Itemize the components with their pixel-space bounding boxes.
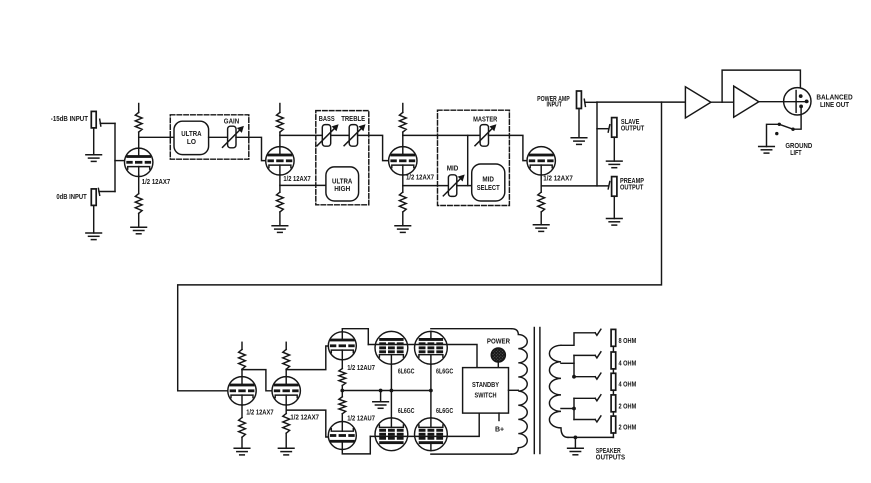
- jack speaker output 4 OHM #2: [611, 352, 616, 369]
- wire input bus: [114, 123, 116, 191]
- jack PREAMP OUTPUT: [608, 177, 617, 197]
- wire bus to SLAVE tip: [597, 128, 609, 130]
- wire 2 ohm tap riser: [573, 398, 575, 419]
- resistor R11 V6 cathode: [285, 405, 287, 413]
- svg-text:SWITCH: SWITCH: [475, 391, 497, 399]
- svg-text:OUTPUT: OUTPUT: [621, 125, 645, 133]
- transformer T1 primary winding: [512, 329, 528, 454]
- tube V11 6L6GC lower left: [375, 418, 408, 451]
- ground at speaker common: [568, 437, 584, 454]
- wire J2 tip to bus: [99, 191, 115, 193]
- wire bus to V1 grid: [115, 160, 125, 162]
- switch contact speaker jack 2: [595, 352, 601, 358]
- resistor R3 V2 plate load: [279, 104, 281, 113]
- svg-text:B+: B+: [495, 425, 504, 433]
- wire MASTER line to MID SELECT node: [467, 135, 469, 185]
- wire POWER AMP INPUT tip: [585, 101, 597, 103]
- wire GAIN to V2 grid: [236, 137, 266, 160]
- wire V6 plate to V7 grid: [286, 346, 328, 370]
- svg-text:MID: MID: [447, 165, 459, 173]
- resistor R10 V6 plate load: [285, 342, 287, 349]
- wire 2 ohm row A: [574, 397, 595, 399]
- wire V7 plate to output tube grids: [342, 329, 368, 345]
- svg-text:TREBLE: TREBLE: [341, 115, 365, 123]
- tube V4 1/2 12AX7: [527, 147, 555, 175]
- svg-text:MASTER: MASTER: [473, 116, 497, 124]
- wire standby to transformer center tap: [509, 389, 519, 391]
- resistor R7 V4 cathode: [540, 175, 542, 192]
- svg-text:INPUT: INPUT: [546, 101, 562, 109]
- svg-text:4 OHM: 4 OHM: [619, 359, 637, 367]
- wire jack chain link: [612, 390, 614, 395]
- svg-text:2 OHM: 2 OHM: [619, 402, 637, 410]
- resistor R5 V3 plate load: [402, 104, 404, 113]
- jack speaker output 2 OHM #5: [611, 416, 616, 433]
- jack speaker output 8 OHM #1: [611, 329, 616, 346]
- wire jack chain link: [612, 369, 614, 373]
- svg-text:1/2 12AX7: 1/2 12AX7: [543, 175, 573, 183]
- resistor R8 V5 plate load: [241, 342, 243, 349]
- ground under R11: [278, 433, 294, 455]
- wire 4 ohm row A: [574, 354, 595, 356]
- ground lift open contact dot: [775, 132, 778, 135]
- connector XLR BALANCED LINE OUT: [784, 88, 811, 115]
- wire secondary top tap 8 ohm: [561, 333, 595, 346]
- junction dot ground tap: [379, 389, 383, 393]
- svg-text:OUTPUTS: OUTPUTS: [596, 454, 626, 462]
- tube V9 6L6GC upper left: [375, 331, 408, 364]
- wire V3 plate node to MASTER: [403, 134, 480, 136]
- ground under J2: [86, 205, 102, 239]
- wire upper plates to transformer: [431, 328, 512, 330]
- pot BASS: [317, 124, 338, 146]
- wire B+ stub: [498, 413, 500, 420]
- tube V6 1/2 12AX7: [272, 377, 300, 405]
- wire lower grid line to standby switch: [370, 413, 479, 436]
- switch contact speaker jack 5: [595, 416, 601, 422]
- resistor R9 V5 cathode: [241, 405, 243, 417]
- wire line-out feed to XLR pin 1: [722, 70, 800, 102]
- wire V4 cathode to PREAMP OUTPUT: [541, 185, 608, 187]
- svg-text:STANDBY: STANDBY: [472, 381, 499, 389]
- wire A2 to XLR: [759, 101, 808, 103]
- wire V2 plate node to BASS: [280, 134, 322, 136]
- ground under R6: [395, 212, 411, 232]
- svg-text:2 OHM: 2 OHM: [619, 424, 637, 432]
- switch contact speaker jack 4: [595, 395, 601, 401]
- input jack J2 0dB INPUT: [91, 188, 99, 205]
- svg-text:6L6GC: 6L6GC: [436, 407, 453, 415]
- wire ULTRA LO to GAIN: [209, 136, 228, 138]
- wire V6 cathode to V8 grid: [286, 410, 328, 437]
- ground under R9: [234, 437, 250, 455]
- svg-text:HIGH: HIGH: [334, 185, 350, 193]
- jack SLAVE OUTPUT: [608, 118, 617, 138]
- pot MID: [443, 175, 464, 197]
- svg-text:LINE OUT: LINE OUT: [820, 101, 850, 109]
- tube V7 1/2 12AU7: [328, 332, 356, 360]
- wire jack chain link: [612, 346, 614, 352]
- ground under PREAMP jack: [607, 196, 623, 225]
- wire 4 ohm tap riser: [573, 355, 575, 376]
- wire XLR shell to ground lift switch: [793, 106, 801, 129]
- jack speaker output 2 OHM #4: [611, 395, 616, 412]
- svg-text:BASS: BASS: [319, 115, 335, 123]
- resistor R13 V8 cathode: [341, 391, 343, 397]
- tube V10 6L6GC upper right: [415, 331, 448, 364]
- op-amp buffer A2: [734, 86, 759, 117]
- wire BASS to TREBLE: [331, 134, 350, 136]
- svg-text:POWER: POWER: [487, 338, 510, 346]
- svg-text:SELECT: SELECT: [477, 184, 501, 192]
- resistor R1 V1 plate load: [138, 104, 140, 113]
- switch GROUND LIFT lever: [779, 124, 793, 129]
- wire cathode bus: [342, 390, 431, 392]
- svg-text:1/2 12AX7: 1/2 12AX7: [406, 174, 434, 182]
- junction dot speaker common: [574, 436, 578, 440]
- input jack J1 -15dB INPUT: [91, 111, 101, 128]
- svg-text:GAIN: GAIN: [224, 118, 239, 126]
- wire 2 ohm row B: [574, 419, 595, 421]
- wire V5 plate to V6 grid: [242, 370, 272, 391]
- svg-text:6L6GC: 6L6GC: [398, 367, 415, 375]
- ground under POWER AMP INPUT jack: [571, 109, 587, 145]
- wire secondary tap 2 ohm: [561, 408, 574, 410]
- junction dot 2 ohm tap: [572, 407, 576, 411]
- wire V8 plate to lower grids: [342, 436, 370, 454]
- svg-text:1/2 12AX7: 1/2 12AX7: [246, 408, 273, 416]
- op-amp buffer A1: [685, 87, 711, 118]
- transformer T1 core: [534, 328, 540, 454]
- ground under R7: [533, 212, 549, 231]
- dashed enclosure MID / MASTER: [438, 110, 510, 205]
- wire MASTER to V4 grid: [489, 135, 528, 160]
- wire TREBLE to V3 grid: [358, 135, 389, 160]
- junction dot 6L6 cathode node: [429, 389, 433, 393]
- wire secondary bottom return: [568, 436, 613, 438]
- svg-text:-15dB INPUT: -15dB INPUT: [51, 115, 89, 123]
- junction dot 6L6 left cathode node: [390, 389, 394, 393]
- svg-text:MID: MID: [482, 175, 494, 183]
- block STANDBY SWITCH: [463, 368, 509, 414]
- svg-text:6L6GC: 6L6GC: [398, 407, 415, 415]
- svg-text:1/2 12AX7: 1/2 12AX7: [142, 178, 170, 186]
- svg-text:LIFT: LIFT: [790, 149, 802, 157]
- resistor R6 V3 cathode: [402, 175, 404, 192]
- svg-text:1/2 12AX7: 1/2 12AX7: [290, 414, 319, 422]
- wire jack chain to common: [612, 433, 614, 437]
- wire lower plates to transformer: [431, 453, 512, 455]
- ground under SLAVE jack: [607, 137, 623, 168]
- wire feedback to power amp section: [178, 102, 662, 391]
- wire 4 ohm row B: [574, 376, 595, 378]
- lamp POWER pilot light: [491, 348, 505, 368]
- wire V3 cathode to MID: [403, 185, 449, 187]
- dashed enclosure ULTRA LO / GAIN: [170, 115, 249, 159]
- tube V5 1/2 12AX7: [228, 377, 256, 405]
- wire V1 plate node to ULTRA LO: [139, 136, 174, 138]
- tube V8 1/2 12AU7: [328, 422, 356, 450]
- svg-text:8 OHM: 8 OHM: [619, 337, 637, 345]
- XLR pin 1 dot: [799, 105, 803, 109]
- jack speaker output 4 OHM #3: [611, 373, 616, 390]
- block MID SELECT: [472, 164, 505, 201]
- junction dot 4 ohm tap: [572, 375, 576, 379]
- svg-text:0dB INPUT: 0dB INPUT: [56, 193, 87, 201]
- svg-text:1/2 12AU7: 1/2 12AU7: [347, 415, 375, 423]
- pot MASTER: [475, 124, 496, 146]
- tube V3 1/2 12AX7: [389, 147, 417, 175]
- resistor R12 V7 cathode: [341, 360, 343, 369]
- wire 6L6 right pair cathodes: [430, 355, 432, 428]
- wire output bus: [596, 102, 598, 186]
- pot GAIN: [223, 126, 244, 148]
- wire secondary tap 4 ohm: [561, 362, 574, 364]
- wire MID to MID SELECT: [457, 185, 472, 187]
- wire upper grid line to standby switch: [368, 345, 477, 368]
- wire J1 tip to bus: [100, 122, 115, 124]
- ground under R4: [272, 212, 288, 232]
- ground at cathode bus: [373, 391, 389, 409]
- svg-text:OUTPUT: OUTPUT: [620, 184, 644, 192]
- resistor R4 V2 cathode: [279, 175, 281, 192]
- block ULTRA LO: [174, 121, 209, 154]
- junction dot 12AU7 bias node: [340, 389, 344, 393]
- pot TREBLE: [344, 124, 365, 146]
- XLR pin 2 dot: [799, 94, 803, 98]
- wire V2 cathode to ULTRA HIGH: [280, 184, 326, 186]
- tube V12 6L6GC lower right: [415, 418, 448, 451]
- wire power amp input line: [597, 101, 685, 103]
- switch contact speaker jack 3: [595, 373, 601, 379]
- svg-text:1/2 12AU7: 1/2 12AU7: [347, 364, 375, 372]
- svg-text:4 OHM: 4 OHM: [619, 381, 637, 389]
- XLR pin 3 dot: [805, 100, 809, 104]
- svg-text:1/2 12AX7: 1/2 12AX7: [283, 175, 310, 183]
- wire A1 to A2: [711, 101, 734, 103]
- svg-text:6L6GC: 6L6GC: [436, 367, 453, 375]
- jack POWER AMP INPUT: [577, 91, 586, 109]
- resistor R2 V1 cathode: [138, 175, 140, 194]
- wire ground lift to ground: [767, 124, 780, 146]
- ground under J1: [86, 128, 102, 161]
- transformer T1 secondary winding: [549, 345, 568, 437]
- block ULTRA HIGH: [326, 167, 359, 201]
- tube V1 1/2 12AX7: [125, 148, 153, 176]
- ground under R2: [131, 213, 147, 233]
- wire jack chain link: [612, 412, 614, 416]
- tube V2 1/2 12AX7: [266, 147, 294, 175]
- switch contact speaker jack 1: [595, 329, 601, 335]
- dashed enclosure tone controls: [316, 111, 369, 205]
- wire 6L6 left pair cathodes: [390, 355, 392, 428]
- ground at ground lift: [759, 147, 775, 154]
- svg-text:LO: LO: [187, 138, 197, 146]
